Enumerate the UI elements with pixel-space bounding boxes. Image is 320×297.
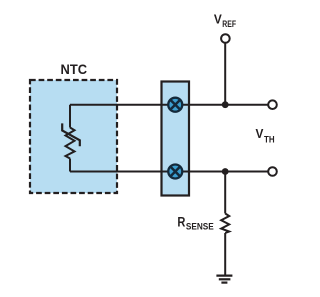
wire VREF drop <box>224 43 226 105</box>
svg-text:TH: TH <box>264 134 275 144</box>
svg-text:SENSE: SENSE <box>186 221 214 231</box>
resistor RSENSE zigzag <box>221 214 229 234</box>
NTC box (dashed) <box>30 80 117 193</box>
wire top row <box>70 104 268 106</box>
thermistor RT1 zigzag <box>66 128 75 159</box>
terminal VTH bottom <box>268 167 277 176</box>
svg-text:V: V <box>214 11 222 26</box>
terminal VREF <box>221 34 230 43</box>
mux box U1 <box>162 82 190 196</box>
svg-text:R: R <box>177 214 185 229</box>
terminal VTH top <box>268 100 277 109</box>
thermistor strike line <box>62 123 80 146</box>
ground <box>216 276 232 283</box>
junction node top <box>222 101 229 108</box>
junction node bottom <box>222 168 229 175</box>
svg-text:V: V <box>256 126 264 141</box>
svg-text:NTC: NTC <box>61 62 88 78</box>
wire to RSENSE <box>224 172 226 214</box>
wire bottom row <box>70 171 268 173</box>
switch S2 <box>168 165 182 179</box>
wire RSENSE to ground <box>224 233 226 275</box>
switch S1 <box>168 98 182 112</box>
svg-text:REF: REF <box>222 19 236 29</box>
thermistor RT1 leads <box>69 105 71 172</box>
